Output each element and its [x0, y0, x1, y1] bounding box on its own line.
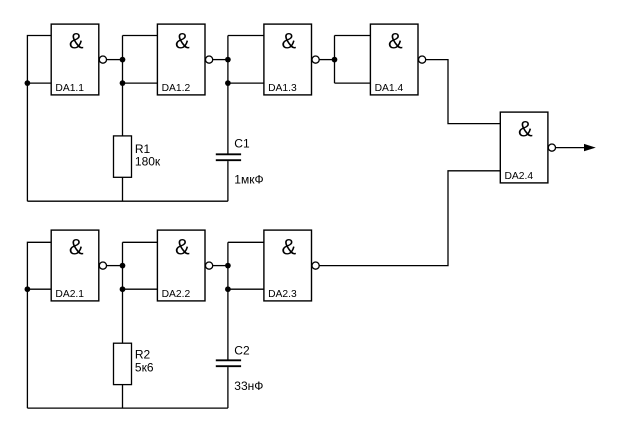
- svg-text:DA2.3: DA2.3: [268, 289, 297, 300]
- inverter bubble at DA2.2 output: [206, 262, 213, 269]
- wire: node D to DA1.4 top input: [335, 35, 371, 37]
- wire: node G to DA2.3 top input: [228, 241, 264, 243]
- svg-text:&: &: [69, 29, 84, 54]
- wire: node C vertical down to C1: [227, 36, 229, 154]
- value label R2: [135, 347, 154, 374]
- value label C1: [234, 137, 263, 187]
- value label C2: [234, 344, 263, 394]
- node: output arrow head: [584, 144, 596, 151]
- NAND gate DA1.1 body: [51, 24, 99, 95]
- wire: C1 bottom lead: [227, 161, 229, 201]
- NAND gate DA2.4 body: [500, 112, 548, 183]
- wire: bottom return bus of oscillator 2: [27, 407, 228, 409]
- node: junction B2: [120, 80, 126, 86]
- NAND gate DA2.1 body: [51, 230, 99, 301]
- wire: node F vertical down to R2: [122, 242, 124, 343]
- NAND gate DA2.3 body: [264, 230, 312, 301]
- wire: DA2.1 output to node F: [107, 265, 123, 267]
- node: junction C1b: [225, 80, 231, 86]
- wire: bottom return bus of oscillator 1: [27, 200, 228, 202]
- node: junction at DA2.1 inputs: [25, 286, 31, 292]
- wire: DA2.1 bottom input stub: [27, 288, 51, 290]
- wire: node G to DA2.3 bottom input: [228, 288, 264, 290]
- svg-text:&: &: [282, 29, 297, 54]
- svg-text:DA1.3: DA1.3: [268, 83, 297, 94]
- wire: node B to DA1.2 top input: [123, 35, 158, 37]
- wire: node C to DA1.3 top input: [228, 35, 264, 37]
- svg-text:C2: C2: [234, 344, 250, 358]
- wire: node F to DA2.2 bottom input: [123, 288, 158, 290]
- wire: DA2.1 top input to left feedback column: [27, 242, 51, 408]
- inverter bubble at DA1.2 output: [206, 56, 213, 63]
- wire: DA2.3 output to DA2.4 bottom input: [319, 171, 500, 266]
- capacitor C1: [216, 154, 241, 160]
- svg-text:DA2.2: DA2.2: [162, 289, 191, 300]
- wire: DA1.1 top input to left feedback column: [27, 36, 51, 202]
- wire: node C to DA1.3 bottom input: [228, 82, 264, 84]
- svg-text:&: &: [518, 117, 533, 142]
- svg-text:DA2.4: DA2.4: [505, 171, 534, 182]
- wire: node D vertical: [334, 36, 336, 84]
- svg-text:33нФ: 33нФ: [234, 379, 263, 393]
- NAND gate DA2.2 body: [157, 230, 205, 301]
- svg-text:1мкФ: 1мкФ: [234, 173, 263, 187]
- NAND gate DA1.4 body: [370, 24, 418, 95]
- wire: node B to DA1.2 bottom input: [123, 82, 158, 84]
- node: junction D: [332, 57, 338, 63]
- wire: C2 bottom lead: [227, 367, 229, 408]
- svg-text:&: &: [175, 29, 190, 54]
- wire: DA1.2 output to node C: [213, 59, 228, 61]
- inverter bubble at DA1.4 output: [419, 56, 426, 63]
- wire: R1 bottom lead: [122, 177, 124, 201]
- wire: node B vertical down to R1: [122, 36, 124, 136]
- value label R1: [135, 142, 161, 169]
- NAND gate DA1.3 body: [264, 24, 312, 95]
- inverter bubble at DA1.3 output: [312, 56, 319, 63]
- svg-text:&: &: [175, 235, 190, 260]
- capacitor C2: [216, 360, 241, 366]
- inverter bubble at DA2.1 output: [99, 262, 106, 269]
- svg-text:&: &: [282, 235, 297, 260]
- inverter bubble at DA2.4 output: [548, 144, 555, 151]
- wire: R2 bottom lead: [122, 385, 124, 409]
- svg-text:DA2.1: DA2.1: [55, 289, 84, 300]
- svg-text:DA1.2: DA1.2: [162, 83, 191, 94]
- node: junction C1a: [225, 57, 231, 63]
- resistor R2: [114, 343, 132, 384]
- svg-text:&: &: [69, 235, 84, 260]
- wire: node D to DA1.4 bottom input: [335, 82, 371, 84]
- wire: DA2.4 output line: [556, 147, 591, 149]
- svg-text:DA1.4: DA1.4: [375, 83, 404, 94]
- svg-text:&: &: [388, 29, 403, 54]
- node: junction G2: [225, 286, 231, 292]
- svg-text:180к: 180к: [135, 154, 161, 168]
- inverter bubble at DA1.1 output: [99, 56, 106, 63]
- wire: DA1.1 output to node B: [107, 59, 123, 61]
- node: junction G1: [225, 263, 231, 269]
- wire: DA1.1 bottom input stub: [27, 82, 51, 84]
- node: junction F2: [120, 286, 126, 292]
- wire: node F to DA2.2 top input: [123, 241, 158, 243]
- wire: DA2.2 output to node G: [213, 265, 228, 267]
- node: junction F1: [120, 263, 126, 269]
- resistor R1: [114, 136, 132, 177]
- svg-text:5к6: 5к6: [135, 361, 154, 375]
- node: junction at DA1.1 inputs: [25, 80, 31, 86]
- svg-text:C1: C1: [234, 137, 250, 151]
- wire: DA1.4 output to DA2.4 top input: [426, 60, 501, 124]
- wire: DA1.3 output to node D: [319, 59, 334, 61]
- svg-text:DA1.1: DA1.1: [55, 83, 84, 94]
- node: junction B1: [120, 57, 126, 63]
- wire: node G vertical down to C2: [227, 242, 229, 359]
- svg-text:R2: R2: [135, 347, 151, 361]
- inverter bubble at DA2.3 output: [312, 262, 319, 269]
- NAND gate DA1.2 body: [157, 24, 205, 95]
